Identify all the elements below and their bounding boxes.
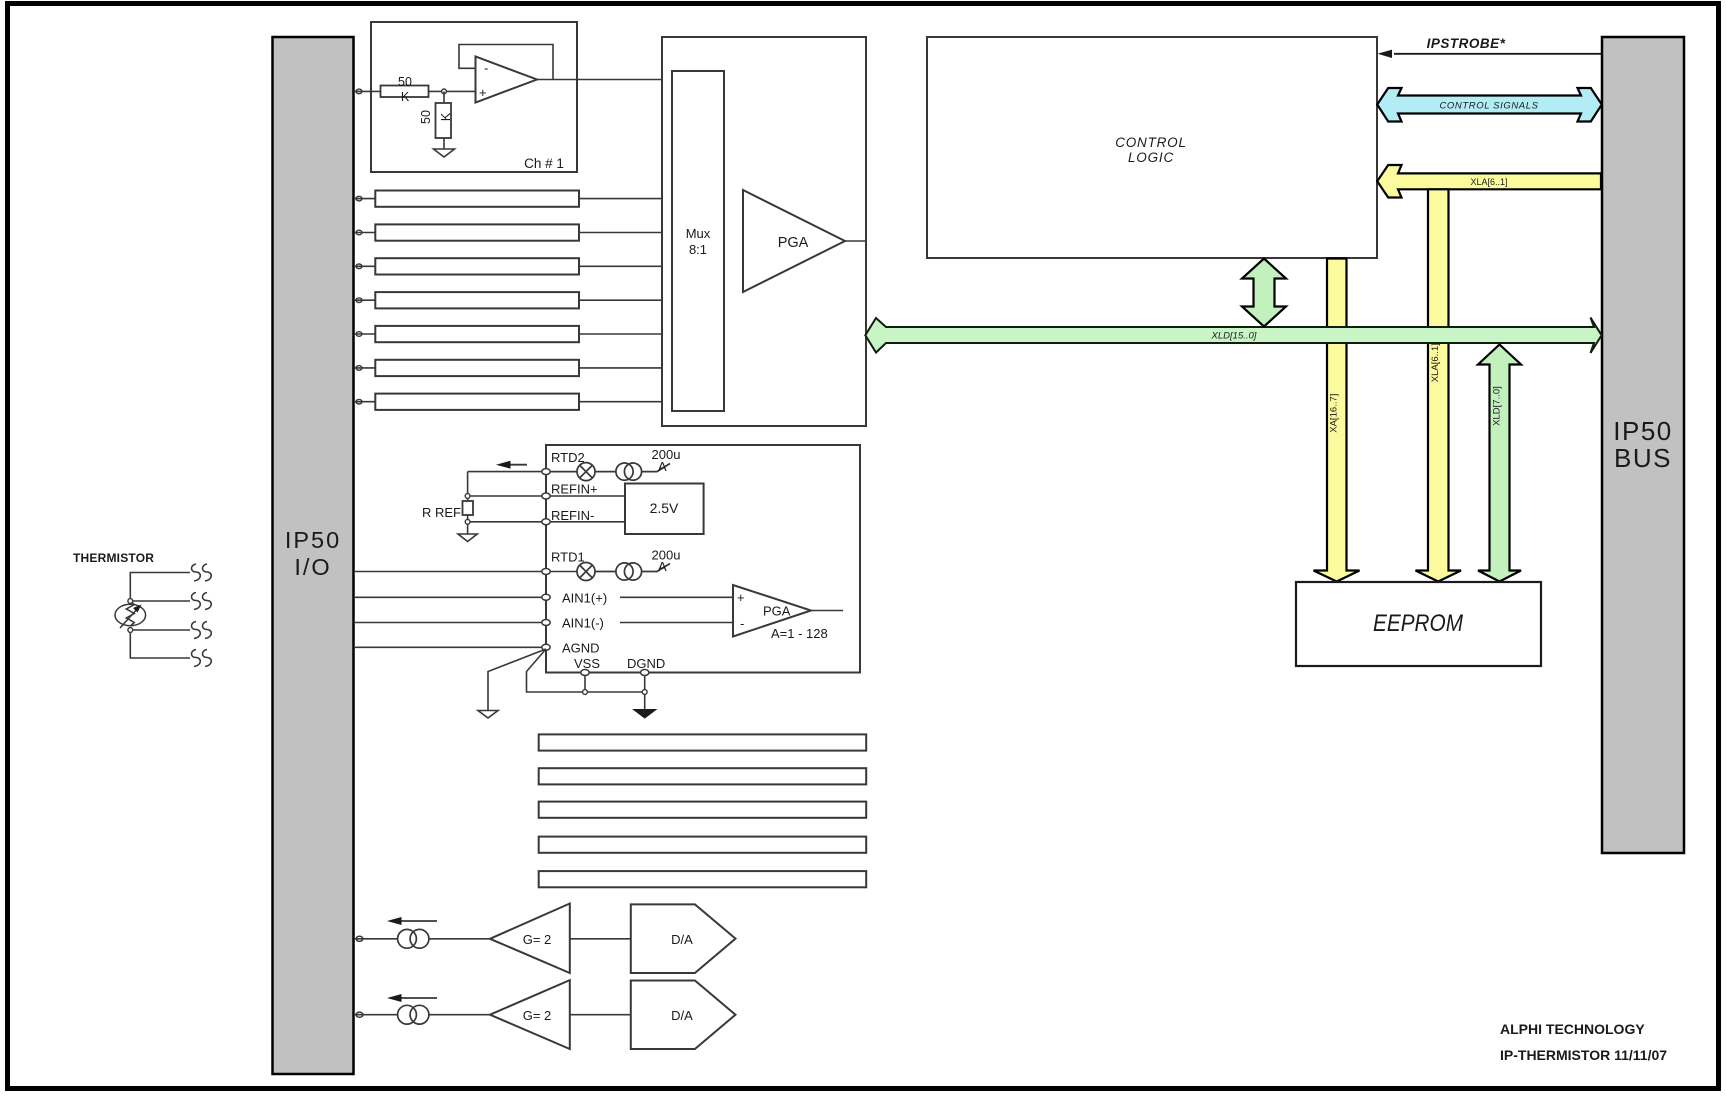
- channel line 3: [354, 224, 672, 240]
- node joints on thermistor: [128, 599, 133, 633]
- svg-text:PGA: PGA: [778, 235, 809, 251]
- node joints: [583, 690, 588, 695]
- svg-text:Ch # 1: Ch # 1: [524, 156, 564, 171]
- resistor R REF: [463, 501, 474, 515]
- svg-text:PGA: PGA: [763, 604, 791, 619]
- svg-text:-: -: [484, 61, 488, 76]
- channel line 6: [354, 326, 672, 342]
- svg-text:XA[16..7]: XA[16..7]: [1329, 394, 1340, 433]
- svg-text:A=1 - 128: A=1 - 128: [771, 626, 828, 641]
- svg-text:50: 50: [398, 75, 412, 89]
- wire: [443, 138, 445, 149]
- RTD1 current source 200uA: [595, 563, 670, 580]
- connector squiggle row 1: [192, 564, 212, 581]
- svg-text:CONTROL SIGNALS: CONTROL SIGNALS: [1439, 101, 1538, 112]
- channel line 8: [354, 394, 672, 410]
- channel line 5: [354, 292, 672, 308]
- thermistor RT1: [115, 601, 146, 628]
- pins on ADC bottom edge: [581, 670, 649, 676]
- svg-text:A: A: [658, 459, 667, 474]
- svg-text:XLA[6..1]: XLA[6..1]: [1470, 177, 1507, 187]
- ground AGND: [478, 711, 498, 719]
- channel line 2: [354, 191, 672, 207]
- svg-text:A: A: [658, 559, 667, 574]
- G=2 amp 2: [490, 980, 631, 1049]
- resistor 50K horizontal: [381, 75, 429, 104]
- REFIN- wire: [468, 521, 625, 523]
- svg-text:8:1: 8:1: [689, 242, 707, 257]
- XLA[6..1] bus arrow (vertical): [1416, 189, 1462, 581]
- svg-text:IP50: IP50: [1613, 416, 1673, 446]
- svg-text:Mux: Mux: [686, 226, 711, 241]
- RTD2 lamp symbol: [546, 463, 595, 481]
- AIN1(-) wire: [354, 622, 546, 624]
- ground DGND (filled): [634, 710, 657, 719]
- D/A converter 1: [631, 904, 736, 973]
- svg-text:D/A: D/A: [671, 932, 693, 947]
- svg-text:EEPROM: EEPROM: [1373, 610, 1463, 637]
- svg-text:THERMISTOR: THERMISTOR: [73, 551, 154, 565]
- svg-text:-: -: [740, 616, 744, 631]
- pins on ADC left edge: [542, 469, 550, 651]
- PGA amp A2: [733, 585, 843, 637]
- svg-text:+: +: [737, 590, 745, 605]
- wire: [429, 90, 476, 92]
- AGND branch wires: [488, 649, 546, 710]
- G=2 amp 1: [490, 904, 631, 974]
- DGND wire: [644, 673, 646, 710]
- node joints: [465, 494, 470, 499]
- CONTROL LOGIC block: [927, 37, 1377, 258]
- control logic to XLD bus arrow: [1242, 259, 1286, 327]
- ground: [458, 534, 477, 542]
- VSS wire: [584, 673, 586, 693]
- ch1 input pin: [356, 89, 362, 94]
- svg-text:IP-THERMISTOR 11/11/07: IP-THERMISTOR 11/11/07: [1500, 1047, 1667, 1063]
- AIN1(+) wire: [354, 596, 546, 598]
- thermistor wires: [130, 573, 190, 659]
- svg-text:VSS: VSS: [574, 656, 600, 671]
- connector squiggle row 4: [192, 650, 212, 667]
- resistor 50K vertical: [419, 103, 453, 138]
- svg-text:K: K: [439, 112, 453, 121]
- IP50 BUS bar: [1602, 37, 1684, 853]
- svg-text:RTD1: RTD1: [551, 550, 585, 565]
- svg-text:BUS: BUS: [1614, 443, 1672, 473]
- 2.5V reference box: [625, 484, 704, 535]
- D/A converter 2: [631, 981, 736, 1050]
- svg-text:2.5V: 2.5V: [650, 500, 679, 516]
- wire: [354, 90, 381, 92]
- mux U2 8:1: [672, 71, 724, 411]
- EEPROM U3: [1296, 582, 1541, 666]
- Ch #1 box: [371, 22, 577, 172]
- svg-text:D/A: D/A: [671, 1008, 693, 1023]
- spare channel bar 4: [539, 837, 867, 853]
- DAC channel 2: [354, 994, 490, 1024]
- REFIN+ wire: [468, 495, 625, 497]
- svg-text:XLD[7..0]: XLD[7..0]: [1492, 386, 1503, 426]
- spare channel bar 2: [539, 768, 867, 784]
- PGA amp A1: [743, 190, 866, 292]
- IP50 I/O connector bar: [273, 37, 354, 1074]
- connector squiggle row 3: [192, 622, 212, 639]
- feedback wire: [459, 45, 553, 80]
- IPSTROBE wire: [1394, 53, 1601, 55]
- XA[16..7] bus arrow (vertical): [1314, 259, 1360, 582]
- svg-text:IP50: IP50: [285, 527, 341, 553]
- node: [442, 89, 447, 94]
- RTD2 current source 200uA: [595, 463, 670, 480]
- DAC channel 1: [354, 917, 490, 948]
- svg-text:IPSTROBE*: IPSTROBE*: [1427, 36, 1506, 51]
- svg-text:G= 2: G= 2: [523, 932, 552, 947]
- svg-text:K: K: [401, 90, 410, 104]
- svg-text:REFIN+: REFIN+: [551, 482, 598, 497]
- channel line 4: [354, 258, 672, 274]
- spare channel bar 5: [539, 871, 867, 887]
- wire: [443, 91, 445, 103]
- svg-text:+: +: [479, 85, 487, 100]
- spare channel bar 1: [539, 734, 867, 750]
- AGND wire: [354, 646, 546, 648]
- svg-text:DGND: DGND: [627, 656, 665, 671]
- channel line 7: [354, 360, 672, 376]
- svg-text:AIN1(+): AIN1(+): [562, 591, 607, 606]
- op-amp U1: [476, 57, 538, 103]
- svg-text:CONTROL: CONTROL: [1115, 135, 1187, 150]
- svg-text:50: 50: [419, 110, 433, 124]
- RTD2 wire to RREF: [468, 471, 546, 473]
- svg-text:XLD[15..0]: XLD[15..0]: [1211, 331, 1257, 342]
- XLA[6..1] bus arrow: [1377, 165, 1601, 198]
- svg-text:ALPHI TECHNOLOGY: ALPHI TECHNOLOGY: [1500, 1021, 1645, 1037]
- svg-text:REFIN-: REFIN-: [551, 508, 594, 523]
- CONTROL SIGNALS bus arrow: [1377, 88, 1602, 122]
- svg-text:LOGIC: LOGIC: [1128, 150, 1174, 165]
- svg-text:XLA[6..1]: XLA[6..1]: [1430, 343, 1441, 382]
- RREF vertical wire: [467, 472, 469, 534]
- XLD[15..0] data bus: [865, 318, 1601, 354]
- RTD1 lamp symbol: [577, 563, 595, 581]
- direction arrow: [496, 461, 527, 469]
- svg-text:RTD2: RTD2: [551, 450, 585, 465]
- svg-text:R REF: R REF: [422, 505, 461, 520]
- ch1 output wire: [537, 79, 672, 81]
- ADC block box: [546, 445, 860, 673]
- svg-text:AGND: AGND: [562, 641, 600, 656]
- XLD[7..0] bus arrow (vertical): [1478, 345, 1521, 582]
- svg-text:I/O: I/O: [294, 554, 331, 580]
- connector squiggle row 2: [192, 593, 212, 610]
- AGND to VSS/DGND rail: [527, 649, 645, 692]
- spare channel bar 3: [539, 802, 867, 818]
- ground: [434, 149, 455, 157]
- mux block outer box: [662, 37, 866, 426]
- svg-text:G= 2: G= 2: [523, 1008, 552, 1023]
- svg-text:AIN1(-): AIN1(-): [562, 616, 604, 631]
- RTD1 wire: [354, 571, 577, 573]
